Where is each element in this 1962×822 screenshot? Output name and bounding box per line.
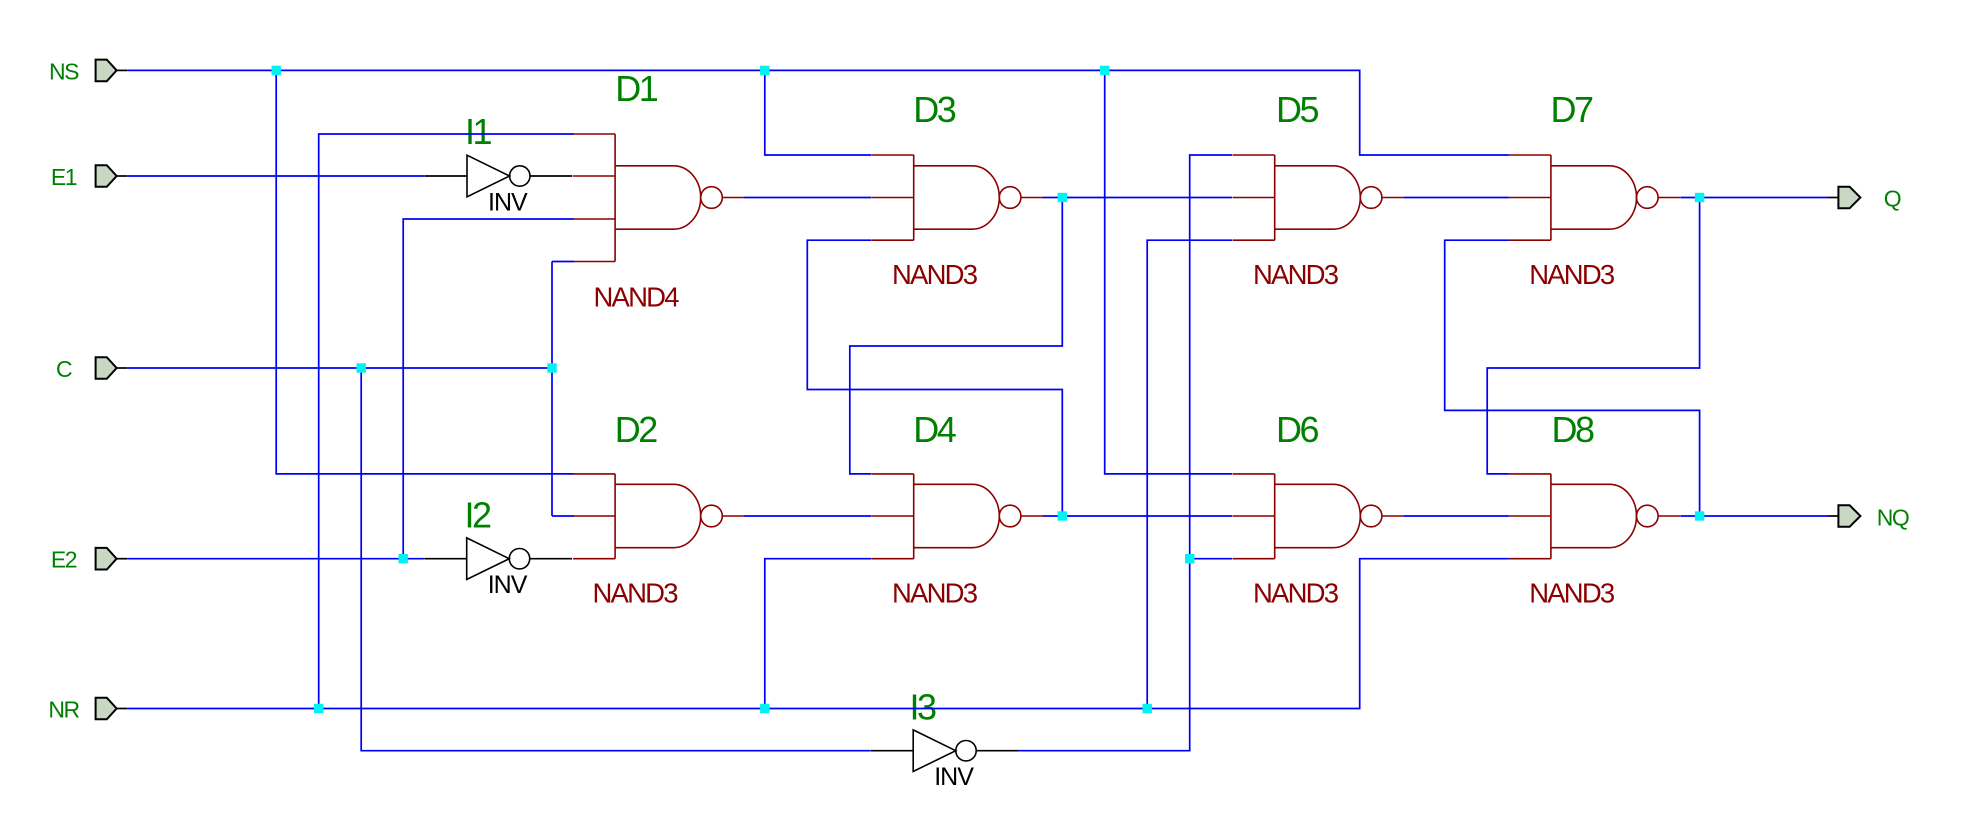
wire NR branch to D4 pin3 (765, 559, 872, 709)
wire NQ feedback to D7 pin3 (1445, 240, 1700, 516)
wire NR branch to D5 pin3 (1147, 240, 1232, 708)
svg-text:D8: D8 (1552, 409, 1594, 450)
svg-text:INV: INV (934, 763, 974, 791)
inverter I1 (425, 155, 573, 197)
wire D5 output to D7 pin2 (1404, 197, 1509, 199)
wire I3 branch to D6 pin3 (1190, 558, 1233, 560)
junction D3 output (1058, 193, 1067, 202)
junction I3-D6pin3 (1185, 554, 1194, 563)
wire D4 output feedback to D3 pin3 (807, 240, 1062, 516)
svg-text:D1: D1 (615, 68, 657, 109)
nand3 gate D5 (1233, 155, 1404, 240)
svg-text:E2: E2 (51, 547, 77, 573)
svg-text:E1: E1 (51, 164, 77, 190)
wire D2 output to D4 pin2 (744, 515, 871, 517)
nand3 gate D8 (1509, 474, 1680, 559)
svg-text:I1: I1 (465, 111, 492, 152)
wire D7 output to Q pin (1681, 197, 1829, 199)
wire E1 to I1 input (127, 175, 424, 177)
wire C column to D1 pin4 and D2 pin2 (552, 262, 574, 517)
wire D8 output to NQ pin (1681, 515, 1829, 517)
wire E2 to I2 input (127, 558, 424, 560)
wire D1 output to D3 pin2 (744, 197, 871, 199)
junction NR-D1 (314, 704, 323, 713)
output pin NQ (1829, 505, 1861, 527)
wire Q feedback to D8 pin1 (1487, 198, 1699, 474)
svg-text:C: C (56, 356, 72, 382)
wire D3 output feedback to D4 pin1 (850, 198, 1063, 474)
junction C-I3 (357, 363, 366, 372)
junction NR-D4 (760, 704, 769, 713)
svg-text:INV: INV (488, 188, 528, 216)
junction Q (1695, 193, 1704, 202)
junction NS-D2 (272, 66, 281, 75)
nand3 gate D6 (1233, 474, 1404, 559)
input pin E2 (96, 548, 128, 570)
svg-text:D6: D6 (1276, 409, 1318, 450)
svg-text:NQ: NQ (1877, 505, 1909, 531)
nand3 gate D3 (872, 155, 1043, 240)
inverter I2 (424, 538, 572, 580)
svg-text:NAND4: NAND4 (594, 281, 680, 312)
svg-text:NAND3: NAND3 (593, 577, 679, 608)
svg-text:D2: D2 (615, 409, 657, 450)
svg-text:NAND3: NAND3 (892, 577, 978, 608)
wire NS branch to D2 pin1 (276, 70, 574, 474)
svg-text:NAND3: NAND3 (1529, 577, 1615, 608)
wire NS branch to D6 pin1 (1105, 70, 1233, 474)
svg-text:INV: INV (488, 571, 528, 599)
input pin NR (96, 698, 128, 720)
svg-text:D7: D7 (1551, 89, 1593, 130)
svg-text:I2: I2 (465, 495, 492, 536)
svg-text:NAND3: NAND3 (1253, 259, 1339, 290)
svg-text:NR: NR (48, 697, 79, 723)
svg-text:I3: I3 (910, 687, 937, 728)
wire D6 output to D8 pin2 (1404, 515, 1509, 517)
nand3 gate D4 (872, 474, 1043, 559)
junction E2 (399, 554, 408, 563)
wire I3 output to D5 pin1 (1019, 155, 1233, 751)
input pin NS (96, 60, 128, 82)
nand4 gate D1 (573, 134, 744, 262)
svg-text:Q: Q (1884, 186, 1901, 212)
wire E2 branch up to D1 pin3 (403, 219, 574, 559)
svg-text:D5: D5 (1276, 89, 1318, 130)
input pin E1 (96, 165, 128, 187)
junction NS-D3 (760, 66, 769, 75)
inverter I3 (871, 730, 1019, 772)
junction D4 output (1058, 511, 1067, 520)
svg-text:D3: D3 (913, 89, 955, 130)
wire D4 output to D6 pin2 (1043, 515, 1232, 517)
junction NR-D5 (1143, 704, 1152, 713)
wire NS main run to D7 pin1 (127, 70, 1509, 155)
svg-text:NAND3: NAND3 (892, 259, 978, 290)
wire D3 output to D5 pin2 (1043, 197, 1232, 199)
wire C branch down to I3 input (361, 368, 870, 751)
junction NS-D6 (1100, 66, 1109, 75)
svg-text:NAND3: NAND3 (1253, 577, 1339, 608)
wire NR main run to D8 pin3 (127, 559, 1509, 709)
wire NS branch to D3 pin1 (765, 70, 872, 155)
input pin C (96, 357, 128, 379)
nand3 gate D2 (573, 474, 744, 559)
nand3 gate D7 (1509, 155, 1680, 240)
wire C run (127, 367, 552, 369)
junction C-column (547, 363, 556, 372)
output pin Q (1829, 187, 1861, 209)
svg-text:NAND3: NAND3 (1529, 259, 1615, 290)
svg-text:D4: D4 (913, 409, 955, 450)
junction NQ (1695, 511, 1704, 520)
svg-text:NS: NS (49, 58, 79, 84)
wire NR branch to D1 pin1 (319, 134, 574, 709)
